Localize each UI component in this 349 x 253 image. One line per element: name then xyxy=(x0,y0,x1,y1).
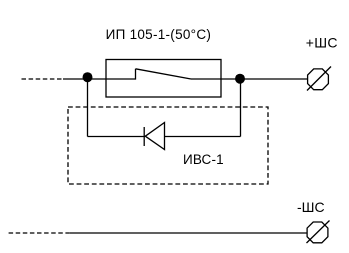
node left junction xyxy=(83,72,93,82)
wire dashed left +ШС lead-in xyxy=(22,78,65,80)
diode VD1 cathode bar xyxy=(143,127,145,146)
wire diode right segment xyxy=(165,136,241,138)
svg-text:ИВС-1: ИВС-1 xyxy=(183,152,224,167)
wire dashed left -ШС lead-in xyxy=(9,232,71,234)
svg-text:ИП 105-1-(50°С): ИП 105-1-(50°С) xyxy=(106,27,212,42)
diode VD1 triangle xyxy=(145,123,164,150)
dashed box ИВС-1 xyxy=(68,107,268,184)
svg-text:-ШС: -ШС xyxy=(297,199,325,215)
wire diode left segment xyxy=(88,136,146,138)
wire right vertical drop xyxy=(240,79,242,137)
wire right lead to terminal xyxy=(191,78,308,80)
wire solid left lead to switch xyxy=(63,78,136,80)
wire solid -ШС xyxy=(70,232,308,234)
switch blade diagonal xyxy=(136,69,192,79)
wire left vertical drop xyxy=(87,79,89,137)
terminal +ШС octagon xyxy=(308,69,329,90)
terminal -ШС octagon xyxy=(307,222,328,243)
detector box ИП 105 xyxy=(106,60,221,98)
terminal +ШС slash xyxy=(307,67,331,91)
node right junction xyxy=(235,74,245,84)
switch tick xyxy=(135,69,137,80)
svg-text:+ШС: +ШС xyxy=(306,34,338,50)
terminal -ШС slash xyxy=(307,221,330,244)
